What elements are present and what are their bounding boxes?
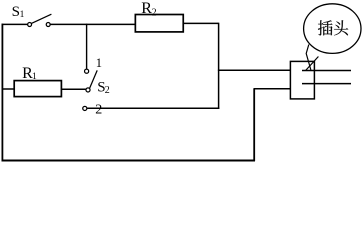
svg-text:1: 1 — [96, 56, 102, 70]
switch S2 pivot contact — [86, 88, 90, 92]
switch S1 contact left — [28, 23, 32, 27]
svg-text:2: 2 — [105, 85, 110, 96]
callout tail line left — [306, 45, 311, 71]
svg-text:2: 2 — [95, 102, 102, 117]
wire top left to S1 — [2, 23, 28, 25]
svg-text:1: 1 — [32, 72, 37, 82]
switch S1 blade — [31, 14, 51, 23]
wire S1 to R2 — [50, 23, 135, 25]
wire right mid vertical — [218, 23, 220, 109]
wire junction down to throw 1 — [86, 24, 88, 69]
wire lower right vertical — [253, 89, 255, 161]
svg-text:2: 2 — [152, 7, 157, 18]
callout tail line right — [306, 57, 319, 71]
callout balloon — [304, 4, 361, 54]
wire R1 to S2 pivot — [61, 88, 86, 90]
wire left vertical — [1, 24, 3, 162]
switch S2 throw 1 contact — [85, 69, 89, 73]
wire throw2 to right vertical — [87, 107, 219, 109]
switch S2 throw 2 contact — [83, 106, 87, 110]
wire bottom — [2, 160, 256, 162]
plug prong upper — [302, 70, 351, 72]
wire to plug lower — [254, 88, 291, 90]
svg-text:1: 1 — [20, 10, 25, 20]
wire R2 right — [183, 22, 218, 24]
resistor R2 body — [135, 15, 183, 32]
resistor R1 body — [14, 81, 61, 97]
switch S1 contact right — [46, 23, 50, 27]
plug prong lower — [302, 83, 351, 85]
label chatou plug text — [318, 20, 348, 35]
plug body — [290, 61, 314, 99]
switch S2 blade — [90, 70, 98, 88]
wire R1 left — [2, 88, 15, 90]
wire to plug upper — [218, 69, 291, 71]
